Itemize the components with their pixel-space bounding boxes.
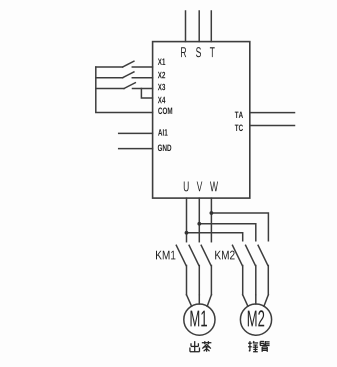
- terminal label X3: [158, 84, 165, 91]
- motor M1 circle: [184, 304, 215, 335]
- wire W tap: [211, 213, 268, 241]
- wire R supply: [185, 11, 187, 42]
- wire GND: [119, 148, 153, 150]
- terminal label GND: [158, 145, 172, 152]
- switch X2 blade: [123, 72, 134, 78]
- label yao (M2 caption char 1): [248, 341, 258, 352]
- contactor KM1 pole 3 lower wire: [210, 266, 212, 295]
- contactor label KM2: [215, 251, 234, 260]
- label chu (M1 caption char 1): [190, 341, 200, 352]
- contactor KM1 pole 2 blade: [189, 245, 199, 265]
- wire U tap: [187, 233, 243, 241]
- terminal label TA: [235, 112, 243, 118]
- wire U output: [186, 198, 188, 242]
- wire M1 feed right: [207, 295, 211, 307]
- terminal label X4: [158, 97, 166, 103]
- wire V output: [198, 198, 200, 242]
- contactor KM2 pole 1 blade: [233, 245, 243, 265]
- terminal label V: [197, 182, 203, 192]
- terminal label TC: [235, 125, 243, 132]
- terminal label X2: [158, 72, 165, 79]
- terminal label R: [181, 47, 186, 57]
- wire AI1: [119, 132, 153, 134]
- contactor KM2 pole 2 lower wire: [255, 266, 257, 295]
- wire W output: [210, 198, 212, 242]
- label cha (M1 caption char 2): [202, 341, 212, 352]
- wire X4 step: [141, 89, 152, 99]
- wire X1 right: [132, 66, 152, 68]
- wire M2 feed right: [264, 295, 268, 307]
- contactor KM2 pole 3 blade: [258, 245, 268, 265]
- terminal label U: [184, 182, 189, 192]
- contactor KM2 pole 1 lower wire: [242, 266, 244, 295]
- wire X1 left: [96, 66, 123, 68]
- terminal label T: [210, 47, 215, 57]
- wire T supply: [210, 11, 212, 42]
- contactor KM1 pole 2 lower wire: [198, 266, 200, 295]
- wire TA: [250, 112, 295, 114]
- wire M2 feed mid: [255, 295, 257, 304]
- terminal label W: [210, 182, 218, 192]
- switch X1 blade: [123, 61, 134, 67]
- junction dot V tap: [197, 222, 201, 226]
- switch X3 blade: [124, 83, 135, 89]
- wire M2 feed left: [243, 295, 248, 307]
- wire M1 feed left: [187, 295, 192, 307]
- wire M1 feed mid: [198, 295, 200, 304]
- wire V tap: [199, 224, 256, 241]
- contactor KM2 pole 3 lower wire: [267, 266, 269, 295]
- wire X3 left: [96, 88, 124, 90]
- terminal label COM: [158, 108, 172, 115]
- terminal label X1: [158, 59, 166, 65]
- motor label M2: [248, 310, 264, 326]
- wire TC: [250, 125, 295, 127]
- contactor KM1 pole 1 blade: [176, 245, 186, 265]
- inverter box U1: [153, 42, 250, 199]
- wire left bus: [96, 67, 153, 113]
- terminal label S: [196, 47, 201, 57]
- contactor KM1 pole 3 blade: [201, 245, 211, 265]
- label bi (M2 caption char 2): [260, 341, 270, 352]
- wire X3 right: [133, 88, 153, 90]
- wire X2 right: [132, 77, 152, 79]
- contactor KM2 pole 2 blade: [246, 245, 256, 265]
- contactor KM1 pole 1 lower wire: [186, 266, 188, 295]
- motor M2 circle: [240, 304, 271, 335]
- junction dot W tap: [210, 211, 214, 215]
- wire X2 left: [96, 77, 123, 79]
- junction dot U tap: [185, 231, 189, 235]
- motor label M1: [191, 311, 208, 327]
- contactor label KM1: [156, 251, 175, 260]
- wire S supply: [198, 11, 200, 42]
- terminal label AI1: [158, 129, 168, 135]
